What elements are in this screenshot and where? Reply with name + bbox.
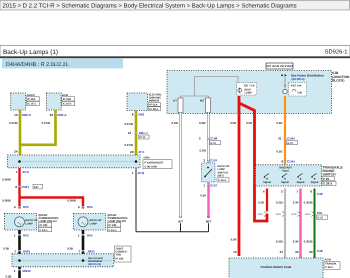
svg-text:10: 10 [233,250,237,254]
svg-text:C E1-1: C E1-1 [109,229,118,232]
svg-text:C/B: C/B [298,92,303,95]
SJB internal wire [181,77,239,99]
red wire from fuse: branch [238,96,241,256]
svg-text:M06-C: M06-C [22,113,32,117]
pink wire [207,183,209,219]
svg-text:24: 24 [14,149,18,153]
svg-text:C48: C48 [317,249,323,253]
M/T connector rect in SJB [206,98,211,113]
svg-text:E07: E07 [34,186,39,189]
svg-text:0.3P: 0.3P [293,240,299,244]
svg-text:FBT 10A: FBT 10A [291,85,302,88]
svg-text:0.3B: 0.3B [3,247,9,251]
svg-text:0.5R: 0.5R [230,121,236,125]
HOT IN ON OR START label [266,63,293,69]
svg-text:12: 12 [128,131,132,135]
svg-text:MG02: MG02 [23,269,32,273]
svg-text:JF03: JF03 [291,213,297,216]
svg-text:M02-A: M02-A [58,113,68,117]
electric chromic mirror box [127,93,148,111]
back-up lamp LH (rear combination lamp) [5,214,37,231]
svg-text:D4HA/D4HB : R 2.0L/2.2L: D4HA/D4HB : R 2.0L/2.2L [6,62,69,68]
wire: red/black feed to back-up lamps [20,168,84,209]
svg-text:0.3W: 0.3W [199,149,206,153]
svg-text:0.3Y/B: 0.3Y/B [124,122,133,126]
wire: ground 0.3B from RH lamp [82,230,85,254]
svg-text:Signal: Signal [297,181,305,184]
svg-text:R04: R04 [87,234,93,238]
svg-text:JP-B: JP-B [138,171,146,175]
svg-text:IP 12B: IP 12B [116,257,124,260]
svg-text:IC 4D-1: IC 4D-1 [150,108,159,111]
orange wire [284,96,286,165]
svg-text:JM03: JM03 [87,249,95,253]
svg-text:C 26-2: C 26-2 [325,266,333,269]
svg-text:A/TM: A/TM [325,259,331,262]
svg-text:C 30-4: C 30-4 [218,179,226,182]
svg-text:JP-F: JP-F [138,150,145,154]
svg-text:29: 29 [130,150,134,154]
svg-text:(SD100-15): (SD100-15) [88,263,101,266]
svg-text:31: 31 [278,137,282,141]
svg-text:C107: C107 [210,159,218,163]
connector notches [18,113,287,271]
svg-text:A/T: A/T [173,100,178,103]
svg-text:0.3Y/B: 0.3Y/B [9,121,18,125]
svg-text:E01: E01 [317,211,323,215]
svg-text:0.3P: 0.3P [293,201,299,205]
joint connector label box [115,246,132,262]
svg-text:0.3G/B: 0.3G/B [304,201,313,205]
wire: green signal to position switch table [314,189,316,259]
svg-text:TOR: TOR [116,254,122,257]
power distribution dots [281,74,283,76]
svg-text:JF02: JF02 [276,213,282,216]
svg-text:(M/T): (M/T) [218,175,224,178]
svg-text:E-07: E-07 [288,142,294,145]
svg-text:0.3R/B: 0.3R/B [67,198,76,202]
fuse right box [289,83,307,97]
svg-text:C14H: C14H [287,137,295,141]
svg-text:0.3P: 0.3P [200,194,206,198]
svg-text:A/T: A/T [178,219,183,223]
back-up lamp switch S1 (M/T) [202,163,216,182]
wire: ground 0.3B from LH lamp [18,230,21,254]
svg-text:2015 > D 2.2 TCI-R > Schematic: 2015 > D 2.2 TCI-R > Schematic Diagrams … [3,3,297,10]
svg-text:HOT IN ON OR START: HOT IN ON OR START [266,65,294,68]
svg-text:0.3R/B: 0.3R/B [2,198,11,202]
AUDIO box [11,93,26,110]
svg-text:PN01: PN01 [22,185,30,189]
svg-text:LAMP (IN)-RH: LAMP (IN)-RH [108,219,126,223]
svg-text:IP 10B: IP 10B [109,224,117,227]
svg-text:0.5R: 0.5R [246,121,252,125]
svg-text:LAMP (IN)-LH: LAMP (IN)-LH [39,219,57,223]
svg-text:E-07: E-07 [211,142,217,145]
tab D4HA/D4HB [2,59,123,69]
svg-text:0.3B: 0.3B [67,247,73,251]
svg-text:Signal: Signal [311,181,319,184]
BCM box [46,93,61,110]
svg-text:IP-15B: IP-15B [63,98,71,101]
wire: yellow/black from AUDIO and BCM to joint connector [20,110,56,155]
back-up lamp RH (rear combination lamp) [74,214,106,231]
svg-text:Signal: Signal [263,181,271,184]
svg-text:C E1-1: C E1-1 [40,229,49,232]
svg-text:IP 11: IP 11 [140,136,146,139]
svg-text:M/T: M/T [200,100,205,103]
fuse B/UP LAMP box [237,83,257,95]
position switch code table [229,258,323,278]
svg-text:LAMP: LAMP [90,222,98,225]
svg-text:MIRROR: MIRROR [149,100,160,103]
SJB junction block box [167,71,332,114]
svg-text:C 9D-2/4B: C 9D-2/4B [145,165,157,168]
transaxle range switch S2 (A/T) [256,165,322,186]
svg-text:IC 15-2: IC 15-2 [63,103,72,106]
svg-text:0.5O: 0.5O [276,150,283,154]
svg-text:30: 30 [309,250,313,254]
svg-text:0.3R: 0.3R [258,201,264,205]
breadcrumb bar [0,1,350,11]
junction dot (right) [135,160,138,163]
svg-text:33: 33 [50,113,54,117]
svg-text:0.5O: 0.5O [276,121,283,125]
svg-text:E-07: E-07 [318,216,324,219]
svg-text:LAMP: LAMP [26,222,34,225]
svg-text:TBT 7.5A: TBT 7.5A [244,84,255,87]
A/T connector rect in SJB [178,98,183,113]
junction dot (left) [18,160,21,163]
svg-text:M62: M62 [139,113,145,117]
svg-text:SD926-1: SD926-1 [325,49,348,56]
svg-text:JF01: JF01 [258,213,264,216]
joint connector GPM strip [8,155,141,168]
svg-text:IP-15A: IP-15A [27,98,35,101]
svg-text:0.3Y/B: 0.3Y/B [124,143,133,147]
svg-text:0.3Gr: 0.3Gr [276,240,284,244]
svg-text:JM02: JM02 [23,249,31,253]
svg-text:0.3Gr: 0.3Gr [276,201,284,205]
svg-text:(SD100-4): (SD100-4) [292,77,305,81]
svg-text:GPM: GPM [144,157,150,160]
red stub from transaxle pin 4 [266,189,268,212]
svg-text:C48: C48 [317,192,323,196]
svg-text:P 49/50/206/207: P 49/50/206/207 [145,161,165,164]
svg-text:Input: Input [282,170,288,173]
ground joint connector strip (See Ground distribution SD100-15) [12,254,114,267]
svg-text:0.3W: 0.3W [199,121,206,125]
svg-text:Back-Up Lamps (1): Back-Up Lamps (1) [3,49,58,56]
svg-text:Signal: Signal [281,181,289,184]
svg-text:M01-J: M01-J [139,131,148,135]
white wire A/T from SJB [179,113,181,219]
svg-text:R04: R04 [87,205,93,209]
svg-text:BLOCK): BLOCK) [332,79,344,83]
svg-text:C14H: C14H [287,159,295,163]
merge bracket to JP-B [136,168,209,232]
svg-text:C107: C107 [210,184,218,188]
red wire 2 jog [239,103,267,221]
wire: pink signal to position switch table [299,189,301,259]
svg-text:Position Switch Code: Position Switch Code [261,265,292,269]
svg-text:IC 15-1: IC 15-1 [27,103,36,106]
wire: white signal to position switch table [284,189,286,259]
svg-text:0.3Y/B: 0.3Y/B [41,121,50,125]
title bar [0,46,350,57]
svg-text:0.3G/B: 0.3G/B [304,240,313,244]
inline connectors JF on signal wires [264,212,314,217]
wire: power feed into fuse [284,77,286,89]
svg-text:P 20: P 20 [323,177,329,181]
svg-text:C 26-2: C 26-2 [323,182,332,186]
svg-text:0.3R/B: 0.3R/B [2,178,11,182]
svg-text:33: 33 [295,250,299,254]
wire: ground tail to MG02 [18,267,21,278]
wire: yellow/black from mirror to joint connector [135,111,138,156]
svg-text:C108: C108 [210,137,218,141]
svg-text:M/T: M/T [206,219,211,223]
svg-text:IP 10B: IP 10B [40,224,48,227]
svg-text:37: 37 [280,250,284,254]
svg-text:0.3B: 0.3B [6,275,12,278]
svg-text:JF04: JF04 [305,213,311,216]
svg-text:0.3W: 0.3W [171,121,178,125]
svg-text:0.5R: 0.5R [231,238,237,242]
svg-text:R03: R03 [23,205,29,209]
svg-text:13: 13 [14,113,18,117]
white wire M/T from SJB [207,113,209,164]
svg-text:JP-D: JP-D [22,170,30,174]
svg-text:BCM: BCM [62,94,68,97]
svg-text:R03: R03 [23,234,29,238]
svg-text:IP-11A: IP-11A [150,104,158,107]
svg-text:LAMP: LAMP [245,92,253,95]
svg-text:AUDIO: AUDIO [27,94,35,97]
